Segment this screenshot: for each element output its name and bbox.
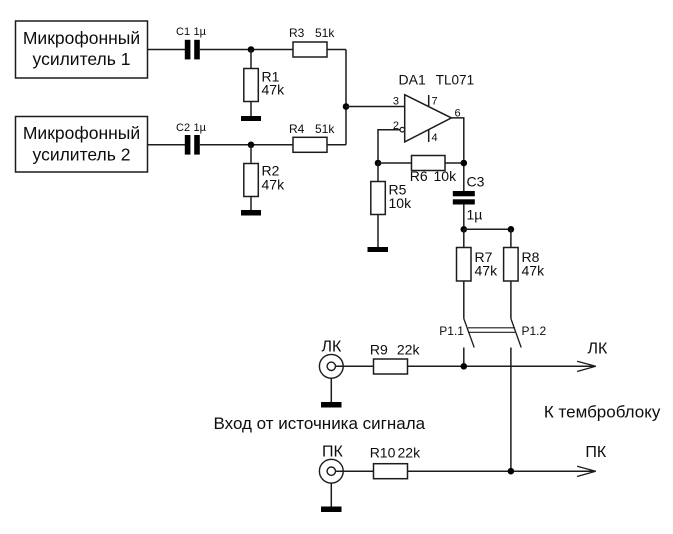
svg-text:R9: R9	[370, 342, 388, 358]
wire R6 right	[445, 162, 464, 164]
svg-text:TL071: TL071	[436, 73, 474, 88]
resistor R8 47k	[504, 229, 545, 318]
switch P1.1	[439, 319, 474, 367]
svg-text:R10: R10	[370, 445, 396, 461]
svg-text:10k: 10k	[389, 195, 413, 211]
wire R9 to output ЛК	[408, 365, 596, 367]
mechanical linkage	[468, 328, 515, 333]
svg-text:51k: 51k	[315, 26, 335, 40]
ground R2	[241, 210, 261, 216]
wire C3 down	[463, 205, 465, 230]
resistor R2 47k	[244, 145, 285, 210]
svg-text:C1: C1	[176, 26, 190, 38]
svg-text:4: 4	[432, 132, 438, 144]
svg-text:1µ: 1µ	[194, 122, 207, 134]
resistor R4 51k	[289, 122, 335, 152]
svg-text:22k: 22k	[398, 445, 422, 461]
block: Микрофонный усилитель 1	[16, 21, 148, 78]
svg-text:ПК: ПК	[585, 444, 607, 461]
ground R1	[241, 116, 261, 121]
resistor R9 22k	[370, 342, 421, 375]
wire right rail vertical	[345, 50, 347, 145]
svg-text:ПК: ПК	[322, 444, 344, 461]
svg-text:10k: 10k	[434, 168, 458, 184]
inverting input bubble	[400, 127, 405, 132]
svg-text:C2: C2	[176, 122, 190, 134]
wire jack to R10	[336, 470, 374, 472]
svg-text:47k: 47k	[262, 82, 286, 98]
node junction C1/R1	[248, 46, 255, 53]
svg-text:7: 7	[432, 96, 438, 108]
resistor R7 47k	[457, 229, 499, 318]
resistor R3 51k	[289, 26, 335, 57]
resistor R6 10k	[410, 156, 457, 185]
arrow output ЛК	[577, 341, 608, 372]
svg-text:усилитель 1: усилитель 1	[33, 49, 131, 69]
node C3/R7	[461, 226, 468, 233]
pin 4	[429, 129, 438, 144]
svg-text:51k: 51k	[315, 122, 335, 136]
svg-text:R4: R4	[289, 122, 305, 136]
ground jack ПК	[321, 483, 342, 512]
node R8 top	[508, 226, 515, 233]
svg-text:К темброблоку: К темброблоку	[544, 403, 661, 422]
svg-text:R6: R6	[410, 168, 428, 184]
wire jack to R9	[336, 365, 374, 367]
wire box2 to C2	[148, 144, 186, 146]
svg-text:47k: 47k	[475, 263, 499, 279]
resistor R5 10k	[371, 163, 412, 247]
wire R4 to right rail	[327, 144, 346, 146]
svg-text:47k: 47k	[522, 263, 546, 279]
node P1.1 on ЛК line	[461, 363, 468, 370]
svg-text:ЛК: ЛК	[322, 339, 343, 356]
svg-text:P1.1: P1.1	[439, 324, 464, 338]
wire to R6 left	[378, 162, 412, 164]
switch P1.2	[511, 319, 547, 472]
wire node row	[464, 228, 511, 230]
arrow output ПК	[577, 444, 607, 477]
node P1.2 on ПК line	[508, 468, 515, 475]
svg-text:усилитель 2: усилитель 2	[33, 145, 131, 165]
op-amp DA1 TL071	[399, 72, 475, 142]
capacitor C1	[176, 26, 207, 59]
node junction C2/R2	[248, 142, 255, 149]
block: Микрофонный усилитель 2	[16, 117, 148, 173]
svg-text:22k: 22k	[397, 342, 421, 358]
connector jack ЛК	[319, 339, 343, 379]
wire pin2 to feedback node	[378, 130, 400, 163]
wire C2 to R4	[200, 144, 293, 146]
capacitor C2	[176, 122, 207, 155]
wire output pin6 down	[451, 118, 463, 191]
pin 7	[429, 95, 438, 108]
node feedback left	[375, 160, 382, 167]
svg-text:C3: C3	[467, 174, 485, 190]
svg-text:DA1: DA1	[399, 72, 426, 88]
wire R3 to right rail	[327, 49, 346, 51]
svg-text:1µ: 1µ	[194, 26, 207, 38]
svg-text:47k: 47k	[262, 177, 286, 193]
wire rail to pin3	[346, 106, 405, 108]
svg-text:Микрофонный: Микрофонный	[23, 28, 140, 48]
wire box1 to C1	[148, 49, 186, 51]
resistor R1 47k	[244, 50, 285, 117]
svg-text:ЛК: ЛК	[588, 341, 609, 358]
ground jack ЛК	[321, 378, 342, 407]
wire R10 to output ПК	[408, 470, 596, 472]
connector jack ПК	[319, 444, 343, 484]
svg-text:Вход от источника сигнала: Вход от источника сигнала	[214, 414, 426, 433]
svg-text:R3: R3	[289, 26, 305, 40]
svg-text:P1.2: P1.2	[522, 324, 547, 338]
wire C1 to R3	[200, 49, 293, 51]
resistor R10 22k	[370, 445, 421, 479]
svg-text:1µ: 1µ	[467, 207, 483, 223]
svg-text:3: 3	[393, 96, 399, 108]
svg-text:Микрофонный: Микрофонный	[23, 123, 140, 143]
node rail to op-amp	[343, 103, 350, 110]
capacitor C3 1µ	[453, 174, 485, 223]
node feedback right	[461, 160, 468, 167]
ground R5	[368, 247, 389, 252]
